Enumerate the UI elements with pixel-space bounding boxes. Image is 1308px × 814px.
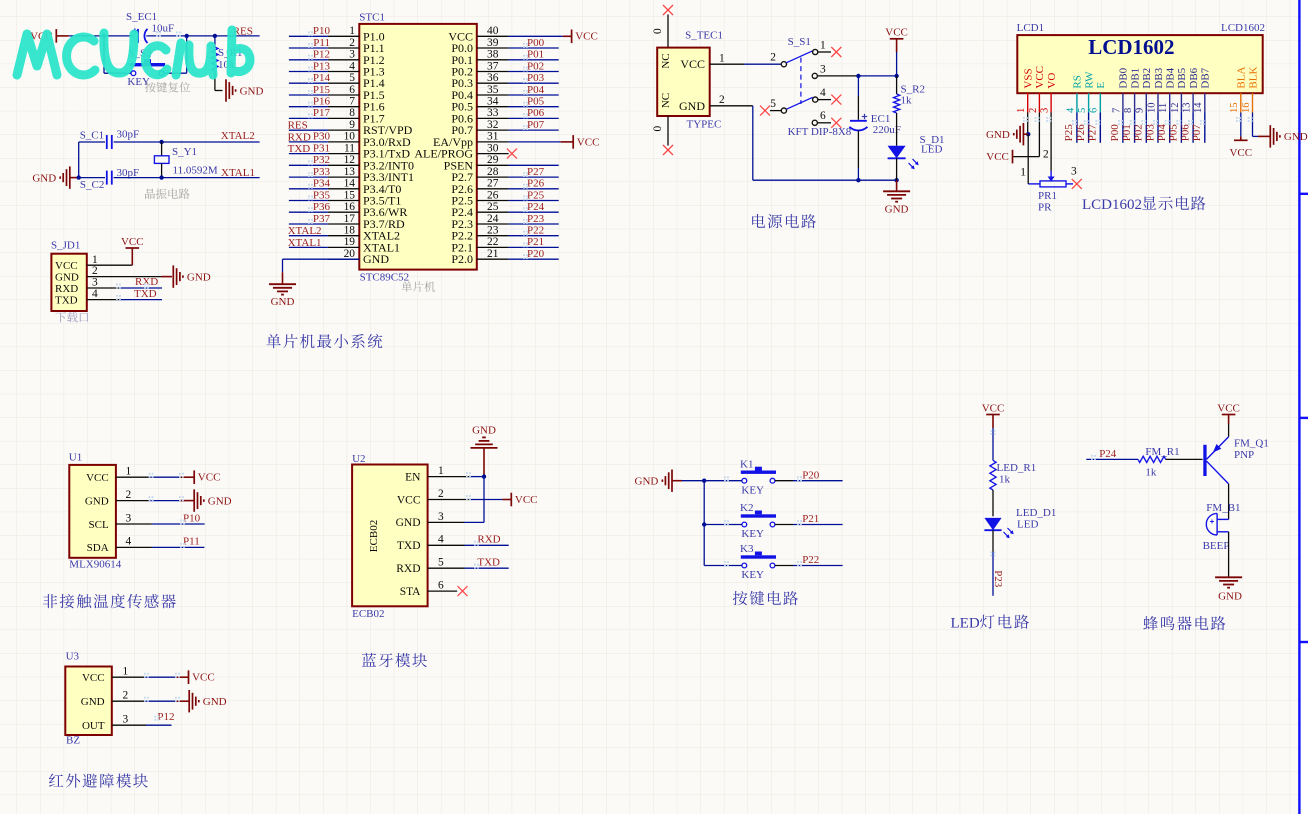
svg-text:10: 10 — [1146, 103, 1157, 114]
svg-text:18: 18 — [344, 225, 356, 237]
ground lcd — [1022, 123, 1024, 145]
svg-text:4: 4 — [820, 87, 826, 99]
net label P01 — [509, 59, 559, 61]
svg-text:P16: P16 — [313, 96, 331, 108]
power flag VCC pw — [890, 38, 904, 40]
svg-text:5: 5 — [349, 72, 355, 84]
svg-text:P24: P24 — [527, 201, 545, 213]
sw pin2 — [781, 62, 786, 67]
watermark MCUclub — [17, 30, 250, 75]
ground u3 — [188, 690, 190, 712]
svg-text:3: 3 — [438, 511, 444, 523]
svg-text:KEY: KEY — [741, 484, 764, 496]
svg-text:6: 6 — [438, 580, 444, 592]
pot PR1 body — [1040, 181, 1066, 187]
svg-text:SCL: SCL — [89, 519, 109, 531]
label 单片机 — [401, 281, 412, 292]
switch S_S2 — [130, 63, 165, 66]
ground blk — [1269, 125, 1271, 147]
svg-text:P33: P33 — [313, 166, 331, 178]
nc bottom typec — [667, 116, 669, 146]
svg-text:14: 14 — [344, 178, 356, 190]
svg-text:16: 16 — [1241, 103, 1252, 114]
svg-text:5: 5 — [438, 557, 444, 569]
svg-text:P22: P22 — [527, 225, 544, 237]
svg-text:SDA: SDA — [87, 542, 109, 554]
svg-text:KEY: KEY — [741, 569, 764, 581]
svg-text:22: 22 — [487, 236, 499, 248]
svg-text:GND: GND — [85, 495, 109, 507]
wire — [146, 35, 259, 37]
net label P25 — [509, 200, 559, 202]
svg-text:17: 17 — [344, 213, 356, 225]
net label P07 — [1204, 113, 1206, 143]
svg-text:TXD: TXD — [397, 540, 421, 552]
power flag VCC jd — [131, 248, 133, 265]
u2 pin4 wire — [428, 544, 465, 546]
svg-text:P00: P00 — [1109, 124, 1121, 142]
svg-text:BLA: BLA — [1236, 67, 1248, 89]
svg-text:VCC: VCC — [515, 494, 538, 506]
label 晶振电路 — [145, 188, 155, 198]
svg-text:P27: P27 — [527, 166, 545, 178]
svg-text:28: 28 — [487, 166, 499, 178]
svg-text:0: 0 — [652, 126, 664, 132]
sw lever54 — [786, 97, 813, 109]
svg-text:33: 33 — [487, 107, 499, 119]
capacitor S_C2 — [106, 171, 108, 185]
svg-text:32: 32 — [487, 119, 499, 131]
sw pin3 — [812, 73, 817, 78]
svg-text:P36: P36 — [313, 201, 331, 213]
svg-text:6: 6 — [820, 110, 826, 122]
svg-text:0: 0 — [652, 28, 664, 34]
svg-text:P26: P26 — [527, 178, 545, 190]
wire — [896, 158, 898, 180]
power flag VCC led — [986, 414, 1000, 416]
power flag VCC reset — [55, 29, 57, 43]
svg-text:LED: LED — [1017, 519, 1038, 531]
svg-text:P20: P20 — [802, 469, 820, 481]
u2 pin3 wire — [428, 521, 464, 523]
svg-text:16: 16 — [344, 201, 356, 213]
net label P03 — [509, 82, 559, 84]
wire collector — [1228, 484, 1230, 520]
sw pin6 — [812, 120, 817, 125]
svg-text:KEY: KEY — [741, 528, 764, 540]
svg-text:GND: GND — [271, 296, 295, 308]
u3 pin3 wire — [112, 724, 146, 726]
svg-text:EN: EN — [405, 471, 421, 483]
svg-text:ECB02: ECB02 — [368, 520, 380, 552]
svg-text:P25: P25 — [527, 189, 545, 201]
node RES junction — [102, 34, 106, 38]
title 按键电路 — [733, 591, 748, 605]
title 单片机最小系统 — [266, 334, 280, 348]
svg-text:3: 3 — [92, 277, 98, 289]
svg-text:GND: GND — [208, 495, 232, 507]
svg-text:PR1: PR1 — [1038, 190, 1057, 202]
svg-text:GND: GND — [240, 85, 264, 97]
net label P22 — [509, 235, 559, 237]
svg-text:RXD: RXD — [288, 131, 311, 143]
svg-text:P2.0: P2.0 — [451, 252, 473, 266]
wire tec1 to sw — [710, 63, 744, 65]
svg-text:VCC: VCC — [1217, 402, 1240, 414]
svg-text:VCC: VCC — [82, 672, 105, 684]
net label P21 — [509, 246, 559, 248]
svg-text:VSS: VSS — [1023, 68, 1035, 88]
crystal S_Y1 — [161, 142, 163, 156]
svg-text:4: 4 — [1065, 107, 1076, 113]
svg-text:VCC: VCC — [986, 151, 1009, 163]
svg-text:P26: P26 — [1075, 124, 1087, 142]
ground keys — [671, 470, 673, 492]
u1 pin2 wire — [116, 500, 150, 502]
capacitor S_EC1 — [137, 29, 139, 43]
lcd pin3 vo — [1050, 113, 1052, 172]
svg-text:15: 15 — [344, 189, 356, 201]
svg-text:S_TEC1: S_TEC1 — [685, 30, 723, 42]
svg-text:12: 12 — [1170, 103, 1181, 114]
wire — [114, 141, 260, 143]
svg-text:6: 6 — [349, 84, 355, 96]
svg-text:2: 2 — [1028, 108, 1039, 113]
svg-text:P01: P01 — [1121, 124, 1133, 141]
svg-text:11.0592M: 11.0592M — [173, 165, 218, 177]
led LED_D1 — [984, 518, 1001, 530]
svg-text:2: 2 — [349, 37, 355, 49]
lcd pin1 gnd — [1027, 113, 1029, 135]
pin30 nc — [507, 149, 517, 159]
svg-text:RXD: RXD — [55, 283, 78, 295]
net label P01 — [1134, 113, 1136, 143]
svg-text:VO: VO — [1046, 73, 1058, 89]
net label P06 — [1192, 113, 1194, 143]
pot PR1 wiper — [1050, 171, 1052, 177]
svg-text:P10: P10 — [313, 25, 331, 37]
svg-text:S_C2: S_C2 — [80, 179, 104, 191]
svg-text:FM_Q1: FM_Q1 — [1234, 438, 1269, 450]
svg-text:P00: P00 — [527, 37, 545, 49]
net label P26 — [509, 188, 559, 190]
svg-text:GND: GND — [363, 252, 389, 266]
svg-text:P37: P37 — [313, 213, 331, 225]
svg-text:P02: P02 — [1133, 124, 1145, 141]
wire — [1228, 532, 1230, 578]
svg-text:VCC: VCC — [680, 57, 705, 71]
lcd pin16 gnd — [1252, 113, 1254, 137]
svg-text:TXD: TXD — [288, 143, 311, 155]
sheet edge white — [1301, 0, 1308, 814]
svg-text:XTAL2: XTAL2 — [221, 130, 255, 142]
svg-text:P05: P05 — [527, 96, 545, 108]
svg-text:1: 1 — [123, 666, 129, 678]
svg-text:1: 1 — [1016, 108, 1027, 113]
svg-text:P17: P17 — [313, 107, 331, 119]
svg-text:1k: 1k — [901, 95, 913, 107]
svg-text:S_C1: S_C1 — [80, 129, 104, 141]
wire tec2 gnd rail — [710, 105, 753, 107]
pin31 VCC wire — [509, 141, 561, 143]
svg-text:BLK: BLK — [1247, 67, 1259, 89]
svg-text:P27: P27 — [1087, 124, 1099, 142]
svg-text:NC: NC — [660, 93, 672, 108]
wire — [69, 35, 135, 37]
svg-text:3: 3 — [123, 714, 129, 726]
svg-text:7: 7 — [349, 96, 355, 108]
sheet border — [1298, 0, 1300, 814]
svg-text:P07: P07 — [527, 119, 545, 131]
svg-text:4: 4 — [92, 288, 98, 300]
svg-text:4: 4 — [438, 534, 444, 546]
svg-text:P01: P01 — [527, 49, 544, 61]
svg-text:GND: GND — [203, 696, 227, 708]
svg-text:25: 25 — [487, 201, 499, 213]
ground jd — [172, 265, 174, 287]
svg-text:K1: K1 — [740, 458, 753, 470]
title 蓝牙模块 — [362, 653, 376, 667]
svg-text:P23: P23 — [527, 213, 545, 225]
net label P26 — [1088, 113, 1090, 143]
svg-text:GND: GND — [55, 271, 79, 283]
svg-text:P32: P32 — [313, 154, 330, 166]
u2 pin5 wire — [428, 567, 465, 569]
svg-text:1: 1 — [438, 465, 444, 477]
u1 pin1 wire — [116, 476, 150, 478]
ground mcu — [269, 284, 296, 294]
svg-text:PR: PR — [1038, 201, 1052, 213]
wire — [992, 530, 994, 552]
lcd pin15 vcc — [1240, 113, 1242, 137]
svg-text:VCC: VCC — [575, 31, 598, 43]
svg-text:P25: P25 — [1063, 124, 1075, 142]
u1 pin4 wire — [116, 546, 152, 548]
svg-text:3: 3 — [349, 49, 355, 61]
net label P02 — [509, 71, 559, 73]
svg-text:DB1: DB1 — [1129, 68, 1141, 89]
net label P20 — [509, 258, 559, 260]
svg-text:VCC: VCC — [192, 672, 215, 684]
svg-text:P05: P05 — [1168, 124, 1180, 142]
svg-text:8: 8 — [1123, 108, 1134, 113]
net label P27 — [509, 176, 559, 178]
svg-text:1: 1 — [92, 254, 98, 266]
svg-text:P34: P34 — [313, 178, 331, 190]
power flag VCC p31 — [572, 135, 574, 149]
svg-text:E: E — [1095, 82, 1107, 89]
svg-text:P21: P21 — [527, 236, 544, 248]
svg-text:27: 27 — [487, 178, 499, 190]
svg-text:VCC: VCC — [121, 236, 144, 248]
svg-text:P13: P13 — [313, 60, 331, 72]
svg-text:40: 40 — [487, 25, 499, 37]
svg-text:P15: P15 — [313, 84, 331, 96]
wire — [78, 142, 80, 178]
ground buzzer — [1215, 577, 1242, 587]
svg-text:5: 5 — [1077, 108, 1088, 113]
u2 pin6 wire — [428, 590, 458, 592]
nc top typec — [663, 5, 673, 15]
svg-text:GND: GND — [1218, 591, 1242, 603]
svg-text:DB7: DB7 — [1200, 67, 1212, 88]
svg-text:3: 3 — [126, 512, 132, 524]
svg-text:1: 1 — [126, 466, 132, 478]
svg-text:DB5: DB5 — [1176, 67, 1188, 88]
power flag VCC bla — [1234, 139, 1248, 141]
svg-text:VCC: VCC — [198, 472, 221, 484]
svg-text:37: 37 — [487, 60, 499, 72]
svg-text:BEEP: BEEP — [1203, 540, 1230, 552]
svg-text:P11: P11 — [183, 536, 200, 548]
svg-text:19: 19 — [344, 236, 356, 248]
svg-text:P12: P12 — [157, 711, 174, 723]
svg-text:2: 2 — [719, 94, 725, 106]
pin2 wire — [87, 276, 161, 278]
svg-text:20: 20 — [344, 248, 356, 260]
svg-text:RW: RW — [1083, 71, 1095, 89]
net label P04 — [1169, 113, 1171, 143]
label 按键复位 — [145, 82, 156, 93]
svg-text:24: 24 — [487, 213, 499, 225]
title 电源电路 — [752, 214, 765, 228]
power flag VCC lcd — [1012, 150, 1014, 164]
svg-text:1: 1 — [349, 25, 355, 37]
sw dashed — [800, 58, 802, 104]
svg-text:P12: P12 — [313, 49, 330, 61]
svg-text:TXD: TXD — [477, 557, 500, 569]
net label P02 — [1145, 113, 1147, 143]
sw pin4 — [813, 97, 818, 102]
svg-text:GND: GND — [472, 424, 496, 436]
svg-text:4: 4 — [126, 536, 132, 548]
svg-text:P03: P03 — [527, 72, 545, 84]
svg-text:38: 38 — [487, 49, 499, 61]
svg-text:U2: U2 — [352, 453, 365, 465]
svg-text:S_Y1: S_Y1 — [172, 146, 197, 158]
pin29 wire — [509, 164, 559, 166]
net label P27 — [1099, 113, 1101, 143]
net label P00 — [509, 47, 559, 49]
svg-text:P31: P31 — [313, 142, 330, 154]
node — [856, 74, 860, 78]
svg-text:U1: U1 — [69, 451, 82, 463]
svg-text:15: 15 — [1229, 103, 1240, 114]
resistor FM_R1 — [1138, 456, 1166, 462]
svg-text:GND: GND — [81, 696, 105, 708]
svg-text:K2: K2 — [740, 502, 753, 514]
svg-text:1k: 1k — [1145, 466, 1157, 478]
pin4 wire — [87, 299, 119, 301]
svg-text:34: 34 — [487, 96, 499, 108]
svg-text:LED_D1: LED_D1 — [1016, 507, 1056, 519]
resistor LED_R1 — [990, 460, 996, 490]
svg-text:14: 14 — [1193, 102, 1204, 113]
power flag VCC u1 — [193, 470, 195, 484]
svg-text:P04: P04 — [527, 84, 545, 96]
net label P04 — [509, 94, 559, 96]
svg-text:P03: P03 — [1144, 124, 1156, 142]
capacitor EC1 — [857, 76, 859, 96]
u3 pin2 wire — [112, 700, 145, 702]
svg-text:DB6: DB6 — [1188, 67, 1200, 88]
svg-text:P35: P35 — [313, 189, 331, 201]
svg-text:P10: P10 — [183, 512, 201, 524]
svg-text:VCC: VCC — [1034, 66, 1046, 89]
svg-text:1: 1 — [1020, 166, 1026, 178]
svg-text:KFT DIP-8X8: KFT DIP-8X8 — [788, 126, 852, 138]
node — [856, 178, 860, 182]
svg-text:STC89C52: STC89C52 — [360, 272, 410, 284]
svg-text:30pF: 30pF — [117, 129, 140, 141]
svg-text:11: 11 — [344, 142, 355, 154]
svg-text:P14: P14 — [313, 72, 331, 84]
svg-text:13: 13 — [1182, 103, 1193, 114]
svg-text:P23: P23 — [992, 570, 1004, 588]
svg-text:P30: P30 — [313, 131, 331, 143]
svg-text:KEY: KEY — [127, 76, 150, 88]
lcd pin2 vcc — [1038, 113, 1040, 157]
svg-text:STC1: STC1 — [359, 11, 385, 23]
svg-text:P22: P22 — [802, 554, 819, 566]
svg-text:ECB02: ECB02 — [352, 608, 384, 620]
ground u1 — [193, 489, 195, 511]
svg-text:35: 35 — [487, 84, 499, 96]
net label P03 — [1157, 113, 1159, 143]
sw pin1 — [813, 49, 818, 54]
svg-text:DB3: DB3 — [1153, 67, 1165, 88]
power flag VCC u2 — [510, 493, 512, 507]
ground reset — [225, 79, 227, 101]
svg-text:VCC: VCC — [1229, 147, 1252, 159]
sw pin5 — [781, 108, 786, 113]
pin40 VCC wire — [509, 35, 563, 37]
svg-text:DB4: DB4 — [1165, 67, 1177, 88]
svg-text:7: 7 — [1111, 108, 1122, 113]
svg-text:LED: LED — [951, 616, 980, 632]
svg-text:GND: GND — [635, 476, 659, 488]
svg-text:10: 10 — [344, 131, 356, 143]
svg-text:P04: P04 — [1156, 124, 1168, 142]
svg-text:9: 9 — [349, 119, 355, 131]
svg-text:P20: P20 — [527, 248, 545, 260]
svg-text:GND: GND — [1284, 131, 1308, 143]
svg-text:11: 11 — [1158, 103, 1169, 113]
svg-text:2: 2 — [126, 489, 132, 501]
svg-text:6: 6 — [1089, 108, 1100, 113]
svg-text:VCC: VCC — [86, 472, 109, 484]
svg-text:PNP: PNP — [1234, 449, 1254, 461]
svg-text:P06: P06 — [1179, 124, 1191, 142]
ground power — [896, 180, 898, 191]
svg-text:P06: P06 — [527, 107, 545, 119]
svg-text:P07: P07 — [1191, 124, 1203, 142]
node — [159, 175, 163, 179]
svg-text:RXD: RXD — [396, 563, 420, 575]
svg-text:VCC: VCC — [982, 402, 1005, 414]
title 蜂鸣器电路 — [1143, 616, 1158, 630]
svg-text:LCD1602: LCD1602 — [1221, 22, 1265, 34]
svg-text:FM_R1: FM_R1 — [1145, 446, 1179, 458]
svg-text:OUT: OUT — [82, 720, 105, 732]
svg-text:9: 9 — [1135, 108, 1146, 113]
transistor FM_Q1 — [1203, 445, 1206, 476]
svg-text:GND: GND — [396, 517, 421, 529]
svg-text:3: 3 — [1071, 166, 1077, 178]
svg-text:LCD1602: LCD1602 — [1082, 197, 1142, 213]
svg-text:S_S1: S_S1 — [788, 36, 811, 48]
pin1 wire — [87, 264, 133, 266]
